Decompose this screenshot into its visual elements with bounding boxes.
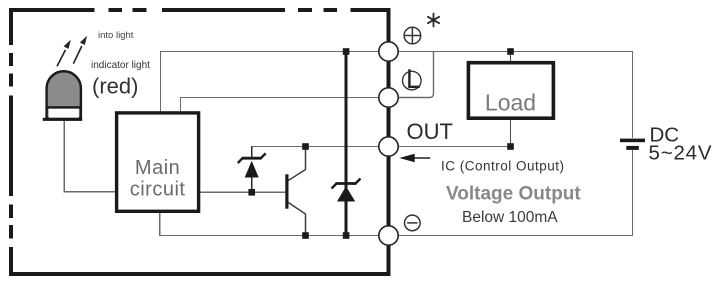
zener diode ZD1: [238, 153, 266, 177]
terminal 4 (0V): [379, 226, 398, 245]
wire: base wire from main circuit to transistor Q1: [199, 191, 286, 193]
sensor enclosure right border (terminal strip): [387, 8, 391, 274]
svg-text:Voltage Output: Voltage Output: [446, 184, 581, 205]
main circuit block: [117, 113, 199, 211]
wire: OUT rail from zener ZD1 to terminal 3: [252, 147, 379, 159]
junction dot: ZD2 top on +V rail: [343, 48, 350, 55]
zener diode ZD2 branch wire (thick): [345, 52, 348, 236]
wire: +V rail from main circuit to terminal 1: [161, 52, 379, 114]
junction dot: ZD2 bottom on 0V rail: [343, 232, 350, 239]
sensor enclosure left border (dash-dot): [9, 8, 13, 276]
sensor enclosure top border (dash-dot): [10, 8, 391, 12]
wire: 0V rail from main circuit bottom to terminal 4: [160, 211, 379, 236]
svg-text:indicator light: indicator light: [91, 60, 150, 71]
wire: load bottom to OUT node: [510, 118, 512, 147]
wire: terminal 2 jumper up to +V rail: [398, 52, 433, 98]
wire: LED to main circuit: [64, 121, 116, 192]
svg-text:IC (Control Output): IC (Control Output): [441, 159, 565, 174]
terminal 1 (+V): [379, 42, 398, 61]
junction dot: emitter on 0V rail: [302, 232, 309, 239]
wire: L rail from main circuit to terminal 2: [181, 98, 380, 114]
terminal 2 (L): [379, 88, 398, 107]
svg-text:OUT: OUT: [407, 119, 453, 144]
LED indicator lamp (red): [43, 71, 82, 121]
wire: load top to +V rail: [510, 52, 512, 64]
junction dot: ZD1 on base wire: [248, 189, 255, 196]
transistor Q1: [285, 147, 305, 236]
LED light arrows: [57, 36, 87, 67]
zener diode ZD1 stem: [251, 147, 253, 193]
battery DC supply: [620, 139, 645, 150]
L (load) symbol at terminal 2: [403, 69, 422, 90]
wire: external +V rail terminal 1 to battery: [398, 52, 632, 139]
minus symbol at terminal 4: [405, 215, 421, 231]
load block: [468, 63, 553, 118]
svg-text:Below 100mA: Below 100mA: [462, 209, 558, 226]
wire: OUT rail terminal 3 to load bottom node: [398, 146, 510, 148]
svg-text:5~24V: 5~24V: [649, 142, 713, 165]
junction dot: load bottom on OUT rail: [507, 143, 514, 150]
junction dot: collector on OUT rail: [302, 143, 309, 150]
svg-text:circuit: circuit: [130, 179, 186, 201]
zener diode ZD2: [332, 179, 361, 202]
arrow pointing to terminal 3: [399, 154, 430, 162]
sensor enclosure bottom border: [9, 272, 391, 276]
svg-text:into light: into light: [98, 30, 134, 41]
svg-text:Main: Main: [135, 157, 180, 179]
plus symbol at terminal 1: [404, 27, 421, 44]
wire: external 0V return battery to terminal 4: [398, 150, 632, 236]
junction dot: load top on +V rail: [507, 48, 514, 55]
asterisk footnote mark: [428, 14, 439, 27]
svg-text:(red): (red): [92, 74, 138, 99]
terminal 3 (OUT): [379, 137, 398, 156]
svg-text:Load: Load: [485, 90, 536, 116]
